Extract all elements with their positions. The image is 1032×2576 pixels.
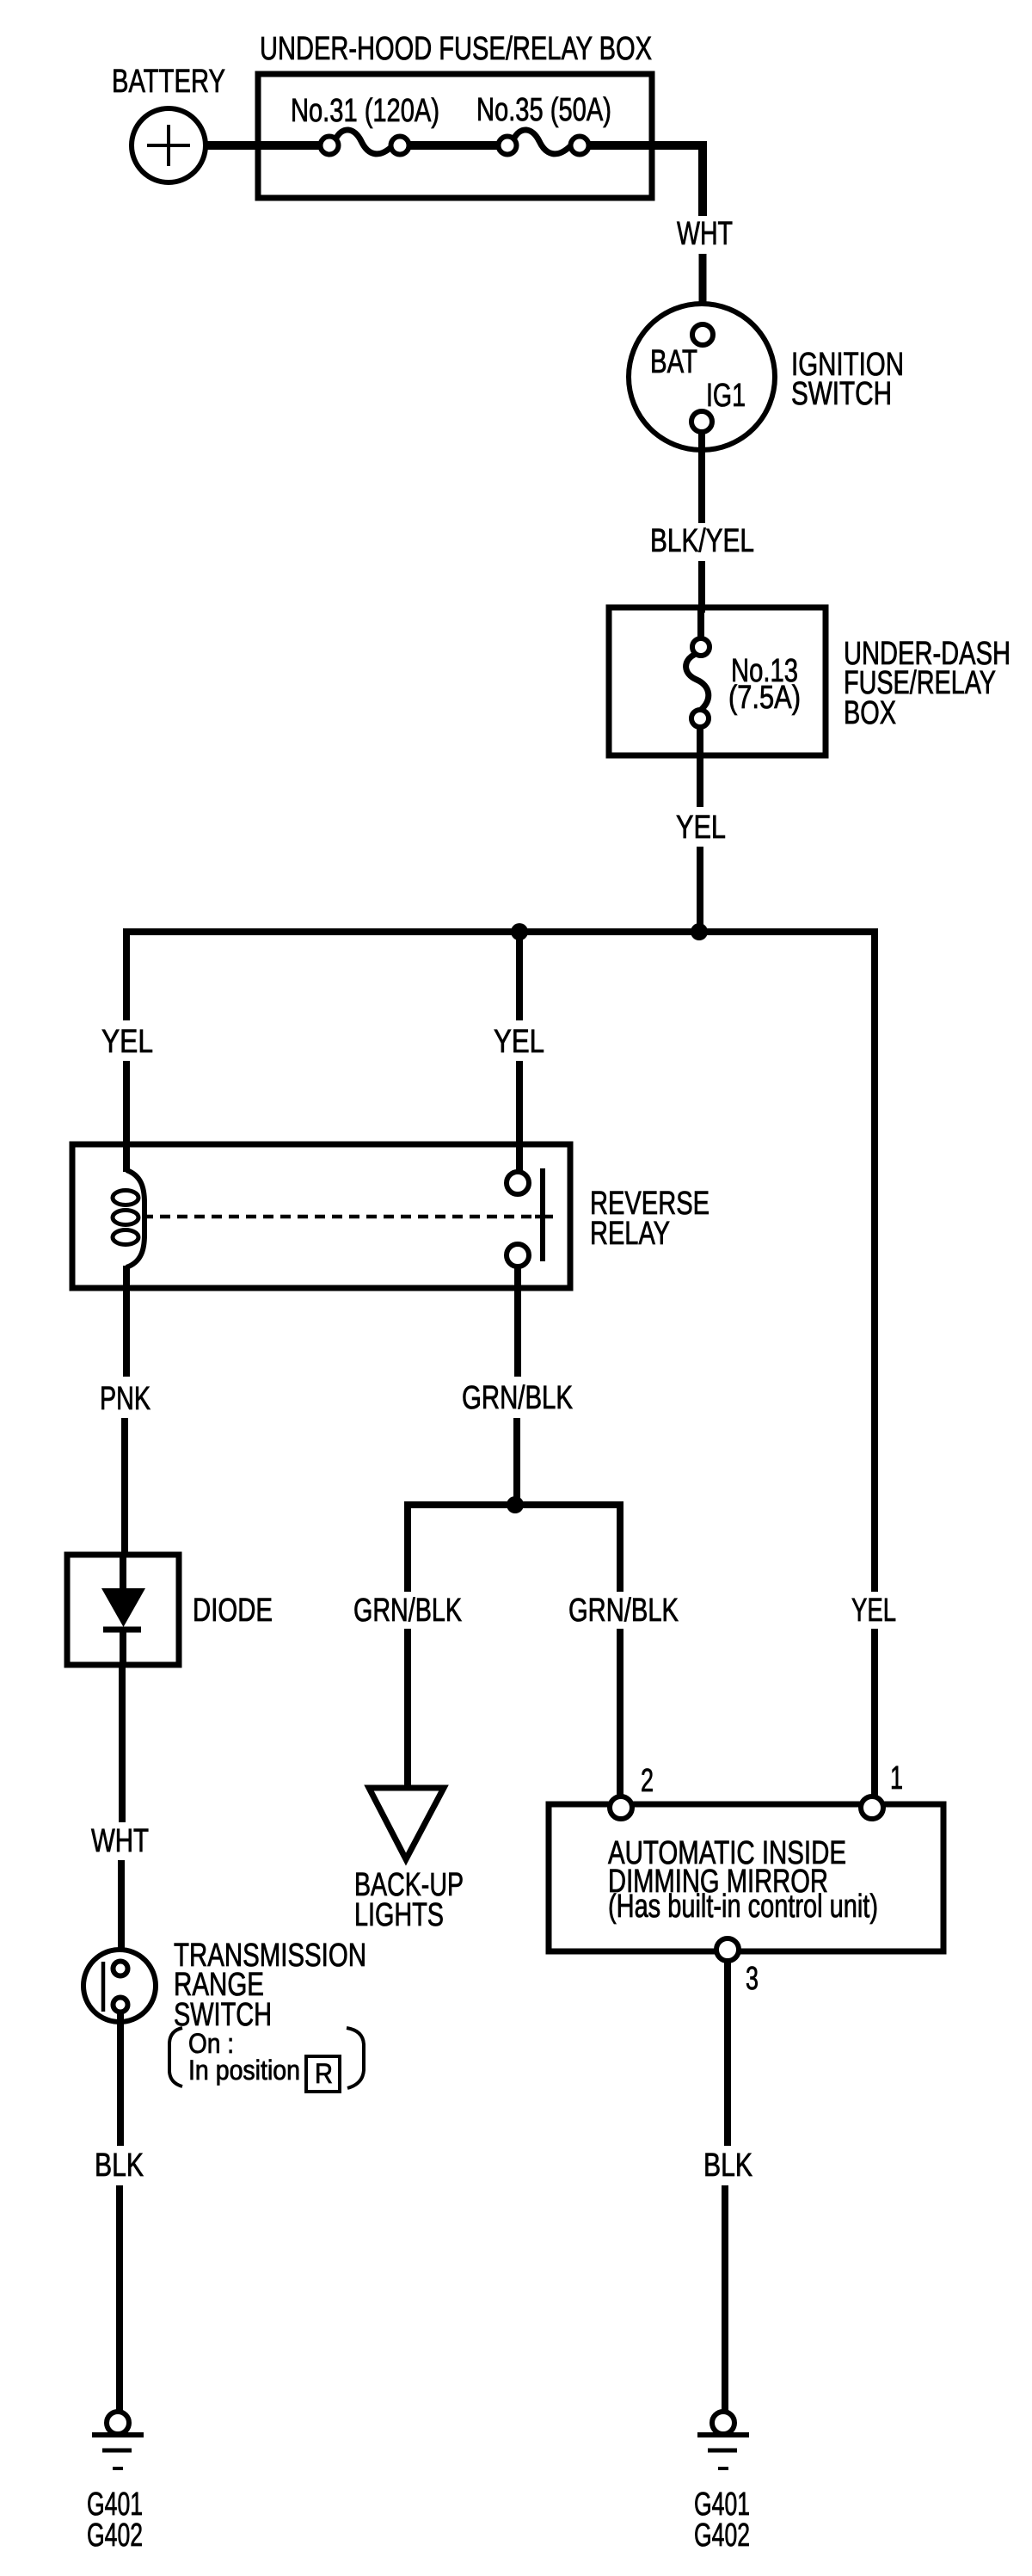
svg-text:BLK/YEL: BLK/YEL [650, 523, 754, 559]
automatic inside dimming mirror box [549, 1804, 943, 1951]
relay dashed link [143, 1215, 531, 1219]
svg-text:YEL: YEL [851, 1593, 896, 1629]
svg-text:UNDER-HOOD FUSE/RELAY BOX: UNDER-HOOD FUSE/RELAY BOX [260, 31, 652, 67]
svg-text:GRN/BLK: GRN/BLK [462, 1380, 573, 1416]
node junction feed bus [691, 923, 708, 940]
node junction GRN/BLK [507, 1496, 524, 1513]
svg-text:YEL: YEL [101, 1024, 153, 1060]
reverse relay box [72, 1144, 570, 1288]
fuse No.31 [321, 130, 409, 155]
transmission range switch [83, 1950, 156, 2022]
battery symbol [132, 108, 206, 182]
svg-text:PNK: PNK [100, 1381, 150, 1417]
svg-text:RELAY: RELAY [590, 1216, 670, 1252]
svg-text:(Has built-in control unit): (Has built-in control unit) [608, 1889, 878, 1925]
pin 2 terminal [610, 1796, 632, 1819]
relay coil [113, 1144, 144, 1288]
back-up lights arrow [369, 1788, 444, 1859]
wire fuse No.31 to fuse No.35 [409, 141, 499, 150]
wire GRN/BLK to junction [513, 1418, 520, 1505]
wire to mirror pin 2 [617, 1629, 623, 1798]
wire BLK to ground left [116, 2185, 123, 2413]
under-hood fuse/relay box [258, 74, 652, 198]
svg-text:IG1: IG1 [706, 378, 746, 414]
wire WHT to ignition switch [699, 254, 707, 325]
svg-text:3: 3 [746, 1961, 759, 1997]
fuse No.35 [499, 130, 589, 155]
wire WHT to range switch [118, 1860, 125, 1963]
relay dashed link tick at contact [535, 1215, 553, 1219]
ignition switch [629, 304, 775, 450]
svg-text:G402: G402 [694, 2517, 750, 2554]
wire left branch to relay [123, 1061, 130, 1144]
wire BLK to ground right [722, 2185, 728, 2413]
pin 3 terminal [716, 1938, 739, 1961]
diode D [101, 1555, 145, 1665]
fuse No.13 [686, 638, 801, 727]
wire into fuse No.13 [697, 607, 704, 639]
svg-text:DIODE: DIODE [193, 1593, 273, 1629]
svg-text:R: R [315, 2058, 333, 2089]
svg-text:WHT: WHT [677, 216, 733, 252]
svg-text:BOX: BOX [844, 695, 896, 731]
condition note brackets [169, 2028, 364, 2092]
wire PNK to diode [121, 1418, 128, 1557]
svg-text:BAT: BAT [650, 344, 697, 380]
svg-text:WHT: WHT [91, 1823, 149, 1859]
svg-text:BATTERY: BATTERY [112, 64, 225, 100]
svg-text:BLK: BLK [703, 2148, 752, 2184]
wire fuse No.13 down [697, 727, 703, 807]
node junction mid bus [511, 923, 528, 940]
wire to back-up lights [404, 1629, 411, 1790]
under-dash fuse/relay box [609, 607, 826, 755]
wire diode to WHT [119, 1665, 126, 1822]
svg-text:2: 2 [641, 1763, 654, 1799]
svg-text:No.31 (120A): No.31 (120A) [291, 93, 439, 129]
wire relay coil out PNK [123, 1288, 130, 1377]
svg-text:SWITCH: SWITCH [791, 376, 892, 412]
svg-text:GRN/BLK: GRN/BLK [568, 1593, 679, 1629]
ground G401/G402 right [694, 2412, 750, 2554]
wire mid branch to relay [516, 1061, 523, 1173]
relay contact [507, 1168, 543, 1266]
svg-text:G402: G402 [87, 2517, 143, 2554]
svg-text:YEL: YEL [494, 1024, 544, 1060]
svg-text:YEL: YEL [676, 810, 726, 846]
ground G401/G402 left [87, 2412, 144, 2554]
wire mid branch [516, 932, 523, 1020]
wire relay contact out GRN/BLK [514, 1266, 521, 1377]
svg-text:BLK: BLK [95, 2148, 144, 2184]
pin 1 terminal [861, 1796, 883, 1819]
wire BLK/YEL to under-dash box [698, 561, 705, 613]
wire to mirror pin 1 [871, 1629, 878, 1798]
wire YEL to bus [697, 847, 703, 932]
wire fuse No.35 to corner [589, 145, 703, 216]
diode box [67, 1555, 179, 1665]
wire battery to fuse No.31 [204, 141, 321, 150]
svg-text:No.35 (50A): No.35 (50A) [476, 92, 611, 128]
svg-text:In position: In position [188, 2055, 300, 2086]
mirror text [608, 1835, 878, 1925]
svg-text:GRN/BLK: GRN/BLK [353, 1593, 462, 1629]
junction bar [408, 1505, 620, 1592]
svg-text:(7.5A): (7.5A) [728, 680, 801, 716]
svg-text:LIGHTS: LIGHTS [354, 1897, 444, 1933]
svg-text:1: 1 [890, 1760, 903, 1796]
bus wire [126, 932, 875, 1592]
wire range switch to BLK [117, 2012, 124, 2146]
wire mirror pin 3 to BLK [724, 1961, 731, 2146]
wire IG1 down [698, 432, 705, 523]
